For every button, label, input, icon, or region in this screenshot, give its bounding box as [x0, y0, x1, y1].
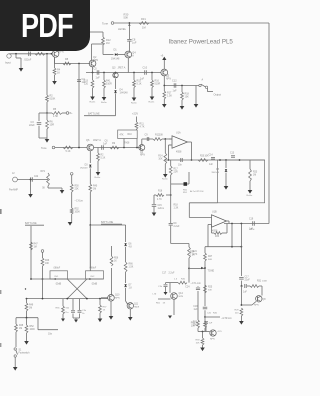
svg-text:-20dB: -20dB [55, 283, 62, 285]
svg-text:1M: 1M [34, 246, 37, 248]
capacitor C6 [101, 145, 103, 150]
capacitor C3 branch [39, 112, 47, 114]
ground D5 [224, 186, 229, 190]
svg-text:4.7K: 4.7K [140, 125, 145, 128]
svg-text:1M: 1M [106, 42, 109, 45]
svg-text:R46: R46 [45, 260, 50, 262]
wire Q7 to opamp line [141, 139, 143, 145]
ground R15 [132, 98, 137, 102]
svg-text:Tone: Tone [102, 21, 109, 25]
node bus2 x79 [78, 147, 80, 149]
ground output jack [195, 86, 197, 105]
diode D5 [225, 160, 227, 168]
svg-text:NPN: NPN [210, 339, 215, 341]
ground caps C1 [73, 317, 80, 319]
svg-text:50K: 50K [124, 15, 129, 19]
svg-text:RaGn: RaGn [95, 177, 101, 179]
node box drop [123, 147, 125, 149]
supply tag Q5 collector [163, 60, 165, 69]
wire U1B inputs [208, 224, 212, 226]
capacitor C23 reg [166, 282, 171, 284]
capacitor C19 [252, 221, 254, 226]
resistor R17 emitter load [163, 85, 165, 87]
op-amp U1B [212, 215, 227, 227]
resistor R59 [202, 331, 204, 333]
svg-text:1uF: 1uF [209, 164, 214, 166]
svg-text:+22V: +22V [132, 112, 138, 116]
capacitor C17 22uF [240, 247, 242, 276]
svg-text:--CYLim: --CYLim [75, 201, 84, 203]
PDF badge overlay [0, 0, 90, 51]
svg-text:RaGn: RaGn [247, 195, 253, 197]
svg-text:R40: R40 [93, 186, 98, 188]
svg-text:1.5K: 1.5K [129, 266, 134, 268]
capacitor C8 on wiper line [128, 24, 130, 39]
svg-text:1M: 1M [29, 307, 32, 309]
ground R52a [68, 222, 73, 226]
wire main bus y72 [86, 72, 161, 74]
svg-text:R27: R27 [208, 256, 213, 258]
transistor Q14 [210, 330, 216, 336]
svg-text:.068uF: .068uF [53, 267, 61, 269]
ground Q12 [168, 316, 172, 319]
resistor R66 [124, 262, 127, 272]
node battline corner [89, 224, 91, 226]
capacitor presence [30, 177, 32, 182]
switch S1 footswitch [14, 348, 16, 350]
node volume junction [241, 285, 243, 287]
resistor R17b 22R leg [170, 160, 172, 166]
capacitor C18 [203, 306, 208, 308]
svg-text:--CYL.Lim: --CYL.Lim [191, 283, 201, 285]
resistor R31 [139, 22, 149, 25]
node long vertical top [78, 63, 80, 65]
capacitor C5 [96, 70, 98, 75]
wire to tone pot [189, 267, 205, 269]
resistor R23 1M [249, 160, 251, 169]
wire output bus [164, 85, 199, 87]
svg-text:510R: 510R [106, 82, 112, 85]
resistor R47 1M [30, 242, 33, 250]
svg-text:CH1: CH1 [54, 276, 59, 278]
transistor Q7 [139, 145, 145, 151]
resistor R5 to tag [52, 112, 62, 115]
pot RP1 [47, 173, 50, 186]
svg-text:R17: R17 [174, 169, 179, 171]
svg-text:10R: 10R [50, 123, 55, 126]
node R2/R5 junction [46, 112, 48, 114]
ground R23 [248, 190, 253, 194]
transistor Q10 [101, 297, 108, 299]
channel box CH2 [86, 271, 104, 279]
capacitor C24 [197, 285, 199, 288]
resistor R1 [35, 52, 45, 55]
wire from badge to R12 [90, 31, 103, 33]
resistor R11 47K [136, 139, 138, 148]
ground R14 [163, 174, 168, 178]
svg-text:L.M: L.M [153, 294, 157, 296]
svg-text:4558: 4558 [176, 151, 182, 154]
wire battline [90, 224, 125, 226]
resistor R15 [133, 72, 135, 74]
svg-text:22R: 22R [174, 171, 179, 173]
wire tone chain down [207, 240, 209, 247]
wire bus2 right [94, 147, 140, 149]
capacitor C25 top [204, 321, 208, 323]
resistor R26 [204, 317, 206, 321]
ground Q10 [110, 301, 112, 316]
resistor R46 10K [41, 258, 44, 266]
svg-text:1.5K: 1.5K [167, 94, 172, 97]
resistor R52 100K [26, 318, 28, 325]
svg-text:C12: C12 [172, 80, 177, 83]
ground R16 [150, 97, 155, 101]
svg-text:22K: 22K [75, 188, 80, 190]
wire bus3 down to regulator [170, 195, 172, 223]
resistor R33 fb [211, 225, 213, 234]
capacitor C16 [241, 285, 243, 287]
svg-text:10K: 10K [185, 95, 190, 98]
op-amp U1A [172, 136, 188, 148]
node splitter mid dot [25, 288, 26, 289]
svg-text:-GTL: -GTL [217, 331, 223, 333]
wire U1A output [188, 141, 192, 143]
ground pot [60, 190, 65, 194]
tag CY line chain [70, 173, 73, 176]
ground R13 [90, 97, 95, 101]
node bus3 [170, 194, 172, 196]
svg-text:C22: C22 [34, 176, 39, 178]
svg-text:5.1K: 5.1K [66, 150, 71, 153]
resistor R49 1M [26, 299, 28, 303]
transistor Q5 [161, 69, 168, 76]
diode D4 [115, 79, 117, 89]
resistor R8 [63, 62, 71, 65]
resistor R55 562 [62, 299, 64, 306]
svg-text:TA08: TA08 [124, 142, 130, 145]
node bus246 joins [231, 246, 233, 248]
capacitor C9 [146, 137, 148, 141]
node out bus joins [231, 223, 233, 225]
resistor R52a [70, 208, 73, 214]
svg-text:CH2: CH2 [90, 276, 95, 278]
svg-text:BATT.LINE: BATT.LINE [88, 113, 100, 116]
svg-text:uPre: uPre [250, 228, 256, 231]
wire long vertical x79 [78, 64, 80, 148]
svg-text:Input: Input [5, 61, 11, 65]
svg-text:1uFns: 1uFns [158, 208, 165, 210]
wire bus y160 [165, 159, 265, 161]
svg-text:100K: 100K [262, 281, 268, 283]
tag GTR line [205, 316, 220, 318]
svg-text:22uF: 22uF [29, 124, 35, 127]
wire diode chain top [125, 225, 127, 242]
wire level pot top [114, 22, 269, 24]
wire regulator drop [188, 268, 190, 282]
wire U1A inverting leg [168, 144, 170, 146]
ground C23 [164, 292, 168, 295]
capacitor C1 [28, 52, 30, 57]
svg-text:1uF: 1uF [140, 78, 145, 81]
diode D6 [124, 243, 126, 245]
svg-text:RaGn: RaGn [162, 179, 168, 181]
svg-text:1M: 1M [253, 174, 256, 176]
node opamp input [164, 138, 166, 140]
resistor R12b 10K [149, 138, 153, 140]
resistor R22 10K [198, 159, 208, 162]
svg-text:BATT.LINE: BATT.LINE [101, 221, 114, 224]
resistor R31b 100K [247, 285, 250, 287]
svg-text:NPN: NPN [115, 297, 120, 299]
svg-text:1N4148: 1N4148 [120, 92, 129, 94]
ground Q14 [200, 348, 205, 352]
svg-text:NPN: NPN [166, 78, 171, 80]
svg-text:1.3K: 1.3K [174, 207, 179, 209]
resistor R21 [63, 146, 73, 149]
resistor R24b 1M [89, 184, 92, 192]
svg-text:BATT.LINE: BATT.LINE [25, 222, 37, 225]
svg-text:1M: 1M [142, 26, 146, 30]
resistor R24 4.7K [188, 247, 191, 258]
capacitor C15 to ground [154, 194, 156, 196]
svg-text:C10: C10 [143, 67, 148, 70]
svg-text:10K: 10K [158, 158, 163, 160]
resistor R25 [204, 285, 207, 293]
wire U1B output [227, 220, 230, 222]
jack J2 [13, 177, 18, 182]
resistor R14 10K to ground [164, 139, 166, 153]
svg-text:1uF: 1uF [96, 77, 101, 80]
wire presence [17, 179, 46, 181]
wire feedback vertical right [268, 23, 270, 224]
svg-text:R52: R52 [30, 326, 35, 328]
svg-text:1.5K: 1.5K [53, 115, 58, 118]
svg-text:100K: 100K [75, 211, 81, 213]
wire Q2 collector to R12 line [91, 44, 93, 60]
scan artifact marks [0, 209, 2, 214]
pot R30 LEVEL wiper [129, 22, 131, 24]
svg-text:PwrAMP: PwrAMP [9, 189, 18, 192]
wire R46 to lower bus [42, 279, 44, 299]
resistor R57 1K [99, 299, 101, 305]
svg-text:Tone: Tone [41, 146, 47, 150]
svg-text:Q11: Q11 [134, 304, 139, 306]
svg-text:Ibanez PowerLead PL5: Ibanez PowerLead PL5 [169, 39, 234, 46]
transistor Q4 [125, 51, 132, 58]
resistor R27 [204, 253, 207, 261]
opto box R10/R11 [118, 130, 138, 139]
svg-text:RaGn: RaGn [90, 102, 96, 104]
svg-text:1M: 1M [93, 188, 96, 190]
svg-text:5.1K: 5.1K [101, 157, 106, 159]
transistor Q11 [127, 303, 133, 309]
svg-text:C18: C18 [193, 306, 198, 308]
resistor R18 output load [181, 85, 183, 87]
svg-text:C15: C15 [158, 205, 163, 207]
svg-text:1N4148: 1N4148 [111, 58, 120, 61]
node box joins [219, 159, 221, 161]
svg-text:R24: R24 [190, 252, 195, 254]
svg-text:Q10: Q10 [115, 295, 120, 297]
transistor Q2 [89, 60, 96, 67]
svg-text:R56: R56 [114, 258, 119, 260]
capacitor C13b [231, 155, 235, 157]
wire bus2 [55, 147, 87, 149]
capacitor C1a [72, 299, 74, 310]
svg-text:RaGn: RaGn [131, 103, 137, 105]
svg-text:510R: 510R [155, 82, 161, 85]
wire Q8 emitter [252, 302, 256, 306]
wire cross X right [67, 279, 87, 299]
ground R20b [96, 172, 101, 176]
svg-text:R66: R66 [129, 264, 134, 266]
resistor R48 1M [15, 318, 17, 324]
resistor R29 220R [240, 286, 242, 305]
svg-text:NPN: NPN [254, 305, 259, 307]
wire input line [11, 53, 52, 55]
svg-text:NPN: NPN [93, 59, 98, 62]
svg-text:-20dB: -20dB [91, 283, 98, 285]
svg-text:C19: C19 [249, 219, 254, 221]
capacitor C1b [79, 299, 81, 310]
wire bus Q1 collector stage [55, 63, 91, 65]
svg-text:NPN: NPN [140, 154, 145, 156]
ground R14b [102, 97, 107, 101]
svg-text:--GTR.Lim: --GTR.Lim [221, 318, 232, 320]
wire Q5 emitter [163, 76, 165, 86]
svg-text:10K: 10K [196, 342, 200, 344]
resistor R56 1K collector [111, 268, 113, 295]
svg-text:C17: C17 [162, 273, 167, 275]
svg-text:7.5K: 7.5K [190, 254, 195, 256]
ground R57 [98, 319, 103, 323]
output jack switch [199, 84, 201, 86]
svg-text:C24: C24 [185, 287, 190, 289]
supply +22V [136, 117, 138, 123]
resistor R12 [102, 32, 104, 37]
ground S1 [13, 367, 18, 371]
ground R6/C3 [45, 139, 50, 143]
svg-text:1N4148: 1N4148 [211, 172, 219, 174]
node lower bus joins [26, 298, 28, 300]
svg-text:RaGn: RaGn [101, 102, 107, 104]
svg-text:1K: 1K [114, 260, 117, 262]
ground Q11 [128, 317, 133, 321]
ground presence branch [30, 179, 32, 181]
svg-text:R16: R16 [158, 191, 163, 193]
svg-text:JFET A: JFET A [93, 139, 101, 142]
resistor R6 [46, 113, 48, 120]
resistor R40 reg [178, 281, 187, 284]
svg-text:RaGn: RaGn [149, 102, 155, 104]
wire Q4 to bus [127, 58, 129, 73]
resistor R2 chain [46, 53, 48, 55]
wire splitter lower bus [27, 298, 108, 300]
pot TONE wiper [201, 267, 203, 269]
svg-text:100K: 100K [30, 329, 36, 331]
transistor Q3 jfet [115, 72, 117, 74]
svg-text:50K: 50K [208, 289, 212, 291]
svg-text:Q12: Q12 [179, 293, 184, 295]
node drive junction [204, 316, 206, 318]
ground R52 [24, 341, 29, 345]
svg-text:R14: R14 [158, 156, 163, 158]
svg-text:R49: R49 [29, 305, 34, 307]
svg-text:LEVEL: LEVEL [118, 27, 127, 31]
node feedback bus y160 [168, 159, 170, 161]
svg-text:1uF: 1uF [209, 323, 213, 325]
svg-text:22uF: 22uF [245, 279, 251, 281]
svg-text:R26: R26 [193, 322, 198, 324]
svg-text:2.2uF: 2.2uF [174, 226, 180, 228]
resistor R9 [110, 146, 119, 149]
svg-text:RP1: RP1 [41, 171, 46, 173]
network box [217, 160, 264, 203]
wire reg to Q12 [170, 282, 178, 284]
svg-text:2.2uF: 2.2uF [169, 273, 175, 275]
svg-text:R52: R52 [75, 209, 80, 211]
svg-text:.022uF: .022uF [24, 59, 32, 62]
node x137 bus2 [136, 147, 138, 149]
tag circle R47 chain [41, 250, 44, 253]
svg-text:1uF: 1uF [103, 142, 108, 145]
svg-text:R50: R50 [75, 186, 80, 188]
resistor R4 emitter Q1 [54, 57, 56, 68]
ground R55 [61, 319, 65, 322]
svg-text:NPN: NPN [179, 296, 184, 298]
resistor R60 10K [197, 320, 200, 328]
transistor Q1 [51, 53, 53, 55]
capacitor C12 [173, 83, 175, 88]
svg-text:10K: 10K [193, 324, 198, 326]
capacitor C10 [144, 70, 146, 75]
svg-text:U1A: U1A [176, 132, 181, 135]
wire battline2 vertical [30, 226, 32, 279]
diode D3 [89, 151, 91, 163]
svg-text:510K: 510K [50, 97, 56, 100]
svg-text:1uF: 1uF [194, 309, 199, 311]
capacitor C21 on drop [169, 223, 173, 225]
svg-text:C17: C17 [245, 277, 250, 279]
svg-text:47K: 47K [120, 135, 125, 137]
pad and loop [171, 183, 184, 185]
resistor R13 Q2 emitter load [92, 73, 94, 81]
ground input [15, 53, 17, 55]
svg-text:1uF: 1uF [132, 40, 137, 44]
wire bus y246 [205, 246, 241, 248]
node top bus joins [30, 278, 32, 280]
transistor Q6 jfet [87, 144, 94, 151]
resistor R14b [103, 72, 105, 74]
resistor R19 4.7K [156, 194, 164, 197]
svg-text:4.7K: 4.7K [157, 199, 162, 201]
ground R17 [162, 104, 167, 108]
input jack J1 [7, 54, 11, 58]
resistor R50 22K [70, 184, 73, 192]
svg-text:5K: 5K [42, 188, 45, 190]
wire to Q14 [198, 331, 210, 333]
wire battline into CH2 box [89, 225, 91, 271]
svg-text:1M: 1M [19, 328, 22, 330]
capacitor feedback [180, 158, 182, 162]
svg-text:U1B: U1B [212, 211, 217, 214]
net BATTLINE wire [84, 115, 116, 117]
transistor Q8 [256, 296, 262, 302]
resistor R16 [151, 72, 153, 74]
svg-text:C14: C14 [209, 155, 214, 157]
ground Q1 emitter [52, 81, 57, 85]
svg-text:TA08: TA08 [134, 305, 140, 308]
